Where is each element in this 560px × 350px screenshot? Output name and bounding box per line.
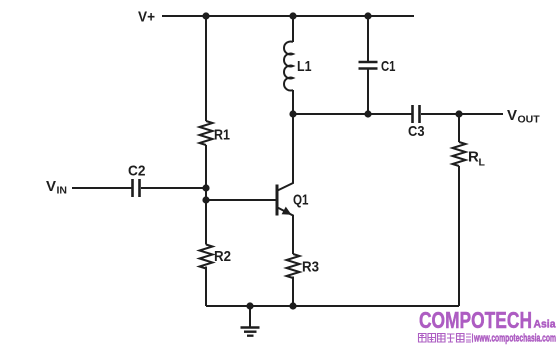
svg-text:C2: C2 <box>128 163 146 180</box>
svg-text:R2: R2 <box>214 248 231 265</box>
svg-text:Asia: Asia <box>534 319 557 331</box>
svg-text:Q1: Q1 <box>293 192 309 209</box>
svg-text:C1: C1 <box>381 58 396 75</box>
svg-text:www.compotechasia.com: www.compotechasia.com <box>473 333 556 345</box>
svg-text:R3: R3 <box>302 259 319 276</box>
svg-text:IN: IN <box>57 185 68 197</box>
svg-text:R: R <box>468 149 479 166</box>
svg-text:L1: L1 <box>297 58 312 75</box>
svg-text:COMPOTECH: COMPOTECH <box>419 307 532 333</box>
svg-text:V: V <box>507 107 517 124</box>
svg-text:V: V <box>46 178 56 195</box>
svg-text:L: L <box>479 157 486 169</box>
svg-text:C3: C3 <box>408 123 425 140</box>
svg-text:OUT: OUT <box>518 114 541 126</box>
svg-text:R1: R1 <box>214 127 230 144</box>
svg-text:V+: V+ <box>138 9 155 26</box>
